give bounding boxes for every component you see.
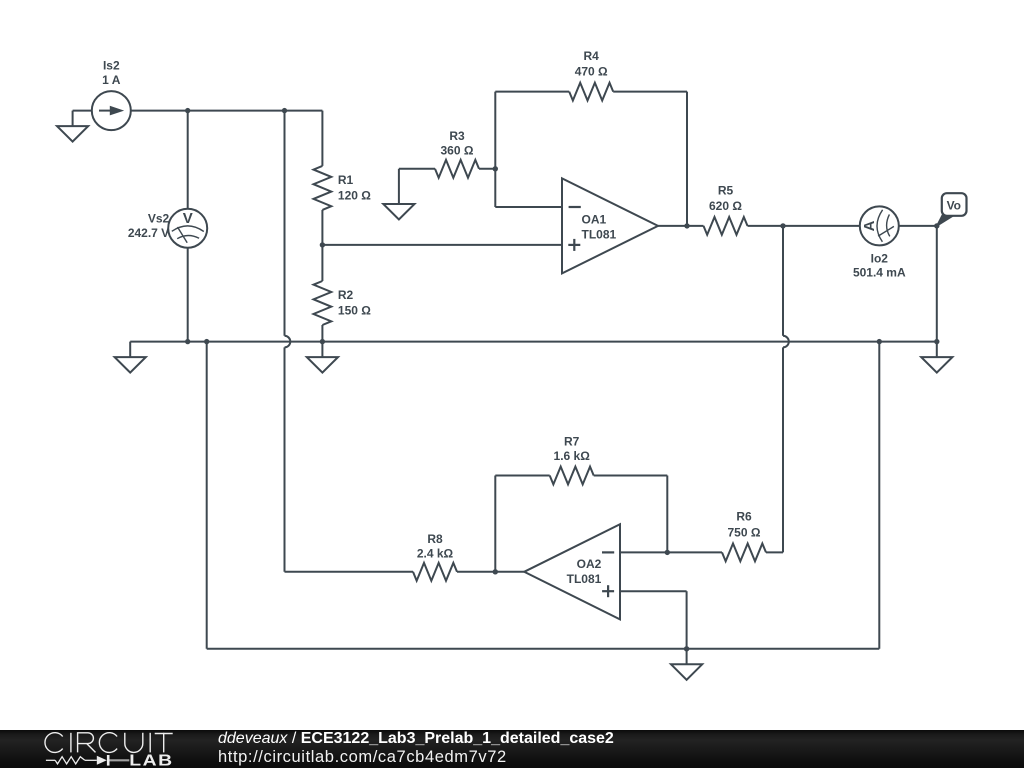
svg-text:360 Ω: 360 Ω <box>441 143 474 157</box>
svg-text:LAB: LAB <box>129 751 173 768</box>
svg-text:V: V <box>183 210 193 227</box>
svg-text:242.7 V: 242.7 V <box>128 226 169 240</box>
svg-text:TL081: TL081 <box>567 572 602 586</box>
svg-text:501.4 mA: 501.4 mA <box>853 266 906 280</box>
svg-text:2.4 kΩ: 2.4 kΩ <box>417 547 454 561</box>
svg-text:150 Ω: 150 Ω <box>338 304 371 318</box>
svg-text:1 A: 1 A <box>102 73 121 87</box>
svg-text:OA1: OA1 <box>582 212 607 226</box>
svg-text:120 Ω: 120 Ω <box>338 189 371 203</box>
svg-text:R3: R3 <box>449 129 465 143</box>
svg-text:Vs2: Vs2 <box>148 211 170 225</box>
svg-text:R7: R7 <box>564 435 580 449</box>
svg-text:R8: R8 <box>427 532 443 546</box>
svg-text:R5: R5 <box>718 184 734 198</box>
svg-text:Is2: Is2 <box>103 59 120 73</box>
svg-text:R6: R6 <box>736 509 752 523</box>
svg-text:A: A <box>861 220 878 231</box>
svg-text:1.6 kΩ: 1.6 kΩ <box>554 449 591 463</box>
svg-text:470 Ω: 470 Ω <box>575 65 608 79</box>
svg-text:R4: R4 <box>584 49 600 63</box>
svg-text:OA2: OA2 <box>577 557 602 571</box>
svg-text:TL081: TL081 <box>582 228 617 242</box>
svg-text:R2: R2 <box>338 288 354 302</box>
svg-text:Io2: Io2 <box>871 251 889 265</box>
svg-text:750 Ω: 750 Ω <box>728 526 761 540</box>
svg-text:R1: R1 <box>338 173 354 187</box>
svg-text:Vo: Vo <box>947 199 961 213</box>
svg-text:620 Ω: 620 Ω <box>709 199 742 213</box>
